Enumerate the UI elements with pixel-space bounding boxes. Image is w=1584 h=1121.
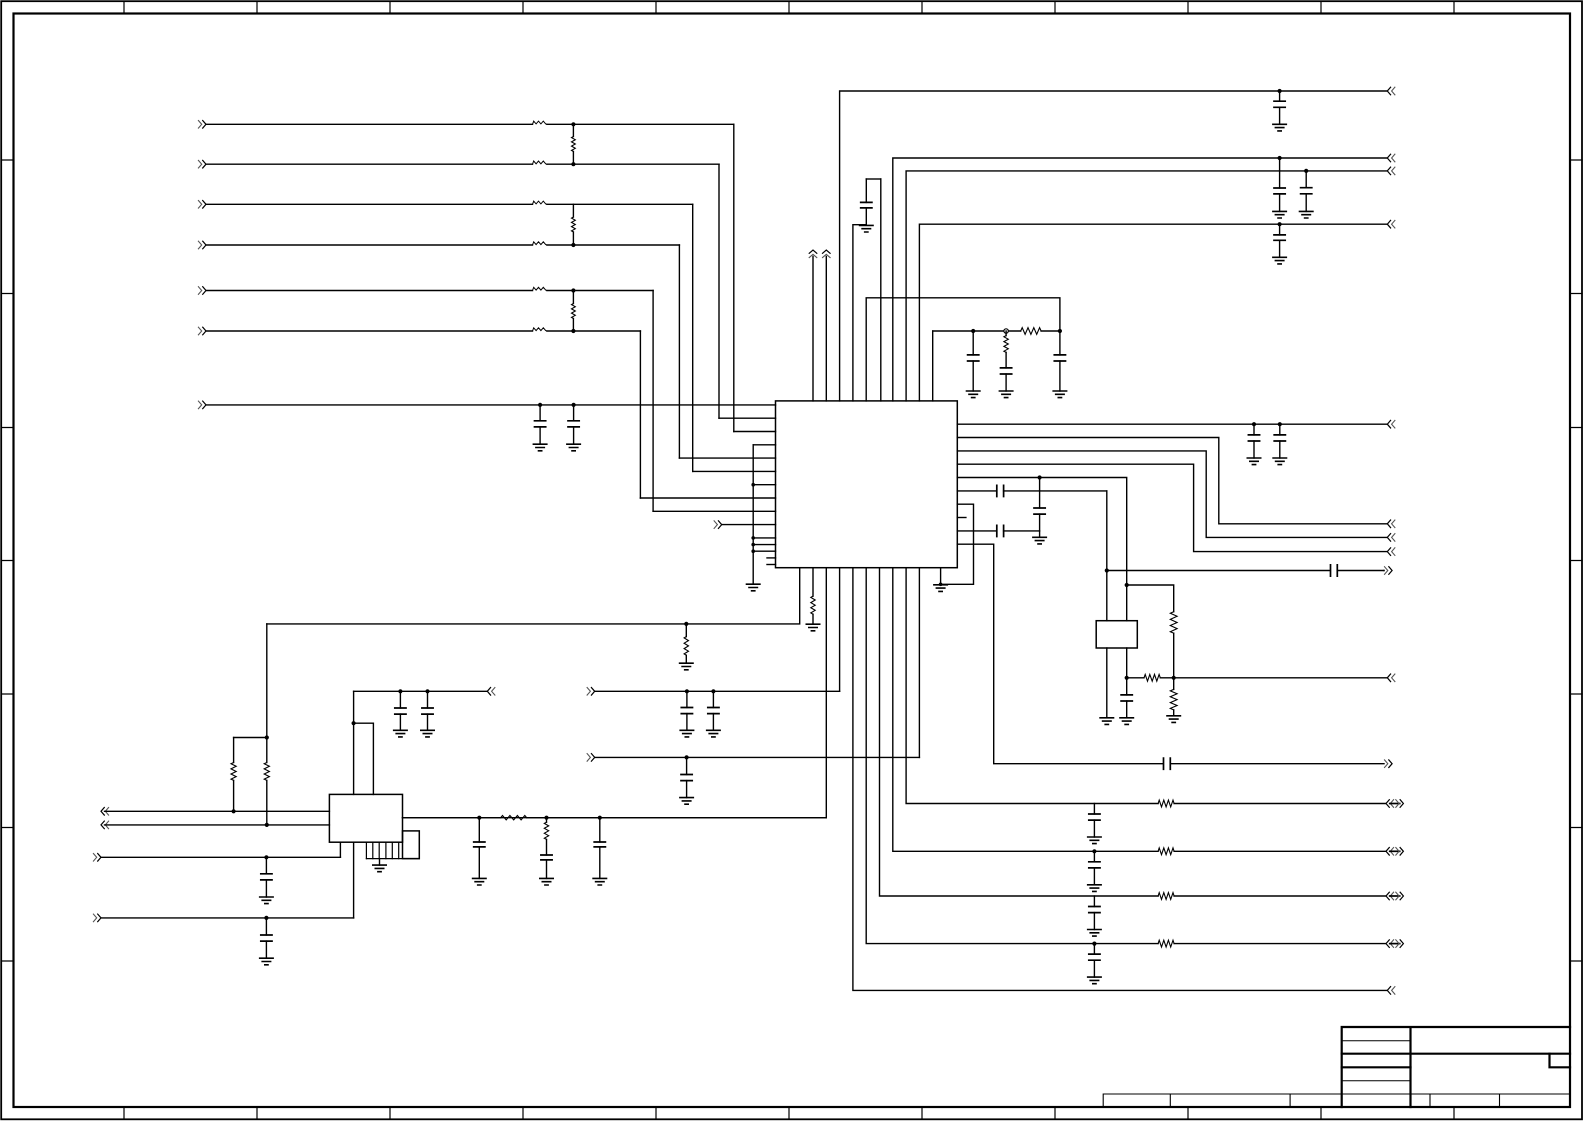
wire L5 into IC pin <box>653 510 775 512</box>
junction dot on XB at y=570.5 <box>1105 568 1109 572</box>
net R2: IC right pin2 to right port <box>957 438 1386 524</box>
junction dot ESD node <box>544 816 548 820</box>
termination resistor R_t2 between L3 and L4 <box>572 204 574 217</box>
ground for C_x3 node <box>1033 537 1046 544</box>
connector power pin to cap rail <box>353 691 355 794</box>
series capacitor C_x1 <box>997 485 1004 496</box>
wire L2 to vertical <box>547 163 719 165</box>
net D3: IC bottom pin to bidirectional port <box>893 568 1158 852</box>
capacitor C_r1b on net R1 <box>1278 422 1282 426</box>
junction dot crystal node <box>1125 676 1129 680</box>
net B1 vertical to pull resistor node <box>266 624 268 738</box>
border zone ticks right <box>1570 160 1582 961</box>
ground R_b2 <box>806 624 819 631</box>
net R1: IC right pin1 to right port <box>957 423 1386 425</box>
termination resistor R_t3 between L5 and L6 <box>572 291 574 304</box>
wire L6 to vertical <box>547 330 641 332</box>
net B4: IC bottom pin4 to mid line <box>839 568 841 692</box>
net C: IC top pin8 to top-right port <box>906 171 1386 401</box>
ferrite bead FB5 on L5 <box>533 287 547 290</box>
bypass capacitor C_top at x=866.3 <box>865 208 867 225</box>
border zone ticks left <box>1 160 13 961</box>
capacitor C_m1b <box>711 689 715 693</box>
crystal left leg to ground <box>1106 648 1108 718</box>
resistor+capacitor branch R_rc2/C_rc2 <box>1005 331 1007 336</box>
RC rail wire <box>933 330 1021 332</box>
net B3: IC bottom pin3 down to USB data line <box>825 568 827 818</box>
ferrite bead FB4 on L4 <box>533 242 547 245</box>
crystal right leg <box>1126 648 1128 678</box>
net U4: line to connector bottom pin2 <box>93 914 96 922</box>
net B1: IC bottom pin1 long wire to USB circuit <box>267 568 800 624</box>
wire L3 vertical drop x=692.7 <box>692 204 694 471</box>
IC U1 <box>776 401 958 568</box>
termination resistor R_t1 between L1 and L2 <box>572 124 574 136</box>
border zone ticks top <box>124 1 1454 13</box>
title block row line thin 3 <box>1342 1080 1411 1082</box>
input line L6 with connector arrow <box>198 327 201 335</box>
capacitor C_j2 <box>425 689 429 693</box>
power arrow pin top 1 <box>812 257 814 401</box>
net D1: IC bottom pin to bidirectional port <box>866 568 1158 944</box>
title block row line thin 1 <box>1342 1040 1411 1042</box>
net B2: IC bottom pin2 resistor to ground <box>812 568 814 596</box>
wire L6 vertical drop x=640.4 <box>639 331 641 498</box>
border zone ticks bottom <box>124 1107 1454 1119</box>
series resistor R_e1 <box>501 816 527 820</box>
capacitor C_d1 <box>1092 942 1096 946</box>
capacitor C_rc3 <box>1059 331 1061 355</box>
connector J1 shield tab <box>403 831 420 859</box>
wire L3 to vertical <box>547 203 693 205</box>
resistor R_x3 to ground <box>1173 678 1175 690</box>
series resistor R_d4 <box>1158 800 1174 807</box>
net U2: connector left pin2 to port <box>101 821 104 829</box>
capacitor on net A <box>1278 89 1282 93</box>
wire L2 vertical drop x=719.0 <box>718 164 720 418</box>
capacitor C_d2 <box>1093 896 1095 907</box>
ground crystal left <box>1100 718 1113 725</box>
series resistor R_d1 <box>1158 940 1174 947</box>
series capacitor C_o1 <box>1331 565 1338 576</box>
capacitor on net C <box>1304 169 1308 173</box>
coupling capacitor C_x3 from net XA <box>1038 475 1042 479</box>
ESD resistor R_e2 + cap C_e2 <box>546 818 548 823</box>
wire L1 to vertical <box>547 123 734 125</box>
capacitor C_u4 <box>264 916 268 920</box>
capacitor on net D <box>1278 222 1282 226</box>
title block row line thick full <box>1342 1053 1570 1055</box>
shield pin bar <box>366 858 419 860</box>
junction dots L5/L6 <box>571 288 575 292</box>
net R3: IC right pin3 to right port <box>957 451 1386 538</box>
net XB: IC right pin6 via series cap to crystal <box>957 490 996 492</box>
IC bottom ground pin <box>940 568 942 585</box>
title block rev box <box>1550 1054 1571 1068</box>
capacitor C_m2 <box>685 755 689 759</box>
series resistor R_d2 <box>1158 893 1174 900</box>
wire XA branch to resistor chain <box>1127 585 1174 612</box>
rail open junction <box>1004 329 1008 333</box>
ground R_b1 <box>680 663 693 670</box>
capacitor on net B <box>1278 156 1282 160</box>
title block outline <box>1342 1027 1570 1107</box>
IC right pin8 stub <box>957 517 966 519</box>
junction dots L1/L2 at x=573.4 <box>571 122 575 126</box>
net R7: IC right pin7 to ground join <box>941 504 974 584</box>
capacitor C_d4 <box>1093 804 1095 815</box>
capacitor C_r1a on net R1 <box>1252 422 1256 426</box>
series capacitor C_x2 <box>997 525 1004 536</box>
input line L5 with connector arrow <box>198 287 201 295</box>
wire L2 into IC pin <box>719 417 776 419</box>
net D4: IC bottom pin to bidirectional port <box>906 568 1158 804</box>
wire L4 to vertical <box>547 244 680 246</box>
IC left pin wire y=551.2 with junction <box>753 550 775 552</box>
wire L1 into IC pin <box>734 431 776 433</box>
IC left pin stub y=557.9 <box>767 557 776 559</box>
connector pin2 hook <box>354 723 374 794</box>
rail junction dot 2 <box>1058 329 1062 333</box>
ferrite bead FB2 on L2 <box>533 161 547 164</box>
mid line M2 y=757.4 from input arrow <box>587 754 590 762</box>
net D: IC top pin9 to top-right port <box>919 224 1386 401</box>
pull resistor R_p1 <box>233 738 235 763</box>
IC left pin wire y=484.7 with junction <box>753 484 775 486</box>
net U3: line to connector bottom pin1 <box>93 854 96 862</box>
net R9: IC right pin9 via series cap to cap divider <box>957 530 996 532</box>
wire to R_p1 <box>234 737 267 739</box>
wire L4 vertical drop x=679.4 <box>678 245 680 458</box>
wire L6 into IC pin <box>640 497 775 499</box>
connector J1 body <box>329 794 402 842</box>
ground under IC bottom right <box>934 585 947 592</box>
net XA: IC right pin5 to crystal <box>957 478 1126 621</box>
IC left pin stub y=564.5 <box>767 564 776 566</box>
input line L3 with connector arrow <box>198 201 201 209</box>
input line L7 (power) with connector arrow <box>198 401 201 409</box>
input line L4 with connector arrow <box>198 241 201 249</box>
net R10: IC right pin10 to output with series cap <box>957 544 1162 764</box>
ground R_x3 <box>1167 716 1180 723</box>
junction dot on XA at y=585 <box>1125 583 1129 587</box>
net B10: IC bottom pin10 to mid line left <box>918 568 920 758</box>
input line L1 with connector arrow <box>198 121 201 129</box>
ferrite bead FB3 on L3 <box>533 201 547 204</box>
title block footer strip <box>1103 1094 1570 1107</box>
mid line M1 y=691.3 from input arrow <box>587 688 590 696</box>
wire L4 into IC pin <box>679 457 775 459</box>
IC left pin wire y=544.6 with junction <box>753 544 775 546</box>
capacitor C_u3 <box>264 855 268 859</box>
pull resistor R_p2 inline <box>266 738 268 763</box>
load capacitor C_x4 <box>1126 678 1128 695</box>
pulldown resistor R_b1 <box>685 624 687 637</box>
wire L3 into IC pin <box>693 470 776 472</box>
capacitor C_m1a <box>685 689 689 693</box>
rail junction dot 1 <box>971 329 975 333</box>
net USB data line from connector right pin <box>403 817 827 819</box>
output line from XB with series cap <box>1107 570 1330 572</box>
junction dot for pulldown on B1 <box>684 622 688 626</box>
IC left pin wire y=444.8 <box>753 444 775 446</box>
series resistor R_rc on rail <box>1021 328 1041 335</box>
hook wire from cap top to IC top pin6 <box>866 178 881 180</box>
decoupling capacitor C_b on L7 <box>572 403 576 407</box>
junction dot at resistor chain <box>1172 676 1176 680</box>
net U1: connector left pin1 to port <box>101 808 104 816</box>
capacitor C_e3 <box>598 816 602 820</box>
ground for left bus <box>747 584 760 591</box>
IC top pin4 to bypass cap ground node <box>853 225 866 401</box>
net A: IC top pin3 to top-right port <box>840 91 1387 401</box>
series resistor R_d3 <box>1158 848 1174 855</box>
wire L5 to vertical <box>547 290 653 292</box>
junction dot pull node <box>265 735 269 739</box>
net B: IC top pin7 to top-right port <box>893 158 1387 401</box>
input line L2 with connector arrow <box>198 160 201 168</box>
net XC wire with resistor R_x2 <box>1127 677 1144 679</box>
left ground bus wire <box>752 445 754 584</box>
capacitor C_e1 <box>477 816 481 820</box>
wire L1 vertical drop x=733.8 <box>733 124 735 431</box>
crystal X1 <box>1096 621 1137 648</box>
net B5: IC bottom pin5 to bottom port <box>853 568 1387 991</box>
IC left pin y=524.6 with input arrow <box>714 521 717 529</box>
IC top pin5 to RC rail <box>866 298 1060 401</box>
cap rail wire to port arrow <box>354 690 487 692</box>
capacitor C_d3 <box>1092 849 1096 853</box>
ferrite bead FB6 on L6 <box>533 328 547 331</box>
capacitor C_j1 <box>398 689 402 693</box>
power arrow pin top 2 <box>825 257 827 401</box>
ferrite bead FB1 on L1 <box>533 121 547 124</box>
net R4: IC right pin4 to right port <box>957 464 1386 551</box>
IC left pin wire y=537.9 with junction <box>753 537 775 539</box>
connector ground <box>379 859 381 866</box>
decoupling capacitor C_a on L7 <box>538 403 542 407</box>
title block row line thick 2 <box>1342 1066 1411 1068</box>
net D2: IC bottom pin to bidirectional port <box>880 568 1159 896</box>
capacitor C_rc1 <box>972 331 974 355</box>
IC top pin10 to RC rail <box>932 331 934 401</box>
resistor R_x1 <box>1170 612 1177 634</box>
connector shield pins <box>366 842 398 858</box>
series capacitor C_o2 <box>1164 758 1171 769</box>
junction dot L4 <box>571 243 575 247</box>
wire L5 vertical drop x=653.1 <box>652 291 654 512</box>
